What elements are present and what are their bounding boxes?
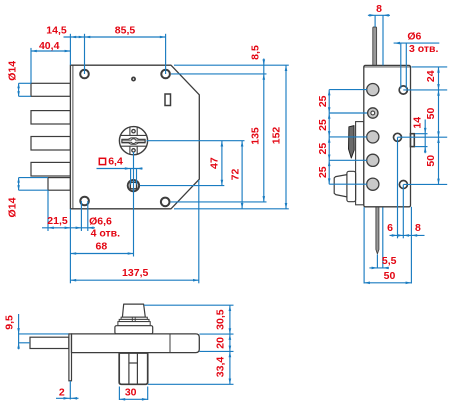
small pin hole top xyxy=(132,77,135,80)
dimension 40,4 line xyxy=(31,50,70,52)
dimension 137,5 line xyxy=(70,279,198,281)
lock body plate outline xyxy=(70,65,199,209)
knob flange 2 xyxy=(119,319,149,321)
wire: extension bolt left end xyxy=(30,48,32,83)
bolt 4 xyxy=(31,162,70,176)
svg-text:8,5: 8,5 xyxy=(250,45,262,60)
dimension diameter 14 bottom bolt xyxy=(18,178,20,191)
dimension chain 30,5-20-33,4 line xyxy=(229,305,231,384)
wire: tab extension left xyxy=(118,387,120,401)
side hole 3 xyxy=(399,181,407,189)
cylinder tab top lines xyxy=(129,127,131,135)
lever nose dark xyxy=(349,126,355,158)
dimension 21,5 and 6,6 line xyxy=(42,227,95,229)
screw hole bottom-left xyxy=(80,197,89,206)
bolt 2 xyxy=(31,111,70,124)
cylinder screw hole top xyxy=(132,130,135,133)
wire: extension hole2 down xyxy=(397,137,399,238)
wire: extension hole 6,6 right xyxy=(87,201,89,231)
svg-text:9,5: 9,5 xyxy=(4,315,16,330)
wire: extension 5,5 right xyxy=(382,207,384,268)
dimension 30 line xyxy=(119,398,147,400)
wire: extension bottom hole center right xyxy=(170,201,266,203)
cylinder ring side xyxy=(347,171,356,201)
slot opening right xyxy=(165,94,171,106)
boss 5 xyxy=(367,178,379,190)
dimension diameter 14 top bolt xyxy=(18,83,20,96)
wire: extension plate top edge right xyxy=(174,64,289,66)
latch tab bottom view outline xyxy=(119,353,148,384)
faceplate bottom view xyxy=(69,334,72,381)
boss 1 xyxy=(367,84,379,96)
svg-text:14,5: 14,5 xyxy=(46,25,67,37)
cylinder outer circle xyxy=(119,127,147,155)
svg-text:Ø6,6: Ø6,6 xyxy=(89,215,112,227)
wire: extension bolt5 left end xyxy=(47,190,49,231)
wire: tab extension right xyxy=(147,387,149,401)
knob flange 3 xyxy=(118,322,150,326)
svg-text:5,5: 5,5 xyxy=(382,255,397,267)
cylinder keyway outer xyxy=(122,138,145,144)
wire: right extension lines xyxy=(412,66,448,68)
svg-text:135: 135 xyxy=(250,127,262,145)
svg-text:85,5: 85,5 xyxy=(115,25,136,37)
side hole 1 xyxy=(399,86,407,94)
faceplate flange side xyxy=(356,122,364,205)
dimension 6 and 8 bottom line xyxy=(390,234,425,236)
svg-text:2: 2 xyxy=(59,387,65,399)
dimension square 6,4 line xyxy=(97,168,143,170)
wire: tab bottom extension right xyxy=(148,383,234,385)
wire: extension top hole center right xyxy=(171,73,267,75)
bolt strip bottom view xyxy=(30,337,69,348)
svg-text:6: 6 xyxy=(387,222,393,234)
cylinder chord bottom xyxy=(120,145,146,147)
svg-text:24: 24 xyxy=(425,70,437,82)
lock body bottom view xyxy=(72,334,200,353)
svg-text:50: 50 xyxy=(425,108,437,120)
wire: extension hole3 down xyxy=(402,185,404,239)
cylinder chord top xyxy=(120,134,146,136)
rod bottom xyxy=(376,207,379,254)
latch tab inner cross line xyxy=(129,362,138,364)
svg-text:8: 8 xyxy=(415,222,421,234)
wire: extension plate right edge bottom xyxy=(198,180,200,283)
wire: extension screw hole col right xyxy=(165,34,167,74)
wire: extension plate bottom edge right xyxy=(174,208,289,210)
dimension 68 line xyxy=(70,253,133,255)
svg-text:68: 68 xyxy=(96,241,108,253)
svg-text:4 отв.: 4 отв. xyxy=(91,228,121,240)
bolt 3 xyxy=(31,137,70,151)
knob flange 1 xyxy=(121,317,147,319)
dimension 5,5 line xyxy=(369,267,389,269)
body top inner line xyxy=(364,66,411,68)
dimension 2 line xyxy=(56,397,79,399)
wire: extension plate left edge top xyxy=(69,34,71,65)
boss 4 xyxy=(367,154,379,166)
boss 2 washer xyxy=(368,108,378,118)
wire: extension hole 6,6 left xyxy=(80,201,82,231)
svg-text:21,5: 21,5 xyxy=(47,215,68,227)
wire: extension screw hole col left xyxy=(84,34,86,74)
body division line xyxy=(169,334,171,353)
svg-text:8: 8 xyxy=(376,3,382,15)
knob cap xyxy=(122,304,145,317)
wire: body bottom extension right bottom view xyxy=(200,350,234,352)
square spindle hub outer xyxy=(128,180,139,191)
cylinder keyway inner slot xyxy=(122,139,145,144)
dimension chain 25x4 line xyxy=(328,90,330,185)
label square 6,4 symbol xyxy=(99,158,105,164)
cylinder tab bottom lines xyxy=(129,146,131,154)
wire: extension cylinder center right xyxy=(147,140,245,142)
svg-text:25: 25 xyxy=(317,119,329,131)
svg-text:Ø14: Ø14 xyxy=(6,197,18,217)
screw hole top-left xyxy=(80,70,89,79)
dimension chain 24-50-50 line xyxy=(438,67,440,184)
dimension diameter 6 line xyxy=(394,42,440,44)
svg-text:6,4: 6,4 xyxy=(108,155,123,167)
svg-text:47: 47 xyxy=(208,157,220,169)
wire: cylinder centerline vertical xyxy=(133,152,135,257)
dimension 72 line xyxy=(241,141,243,209)
svg-text:50: 50 xyxy=(384,270,396,282)
svg-text:152: 152 xyxy=(270,127,282,145)
dimension 47 line xyxy=(221,141,223,186)
screw hole top-right xyxy=(161,70,170,79)
latch tab inner left line xyxy=(128,353,130,384)
wire: extension body left edge down xyxy=(363,207,365,283)
side hole 2 xyxy=(394,133,402,141)
svg-text:50: 50 xyxy=(425,155,437,167)
dimension 8,5 and 135 line xyxy=(263,59,265,202)
svg-text:20: 20 xyxy=(215,337,227,349)
svg-text:33,4: 33,4 xyxy=(215,357,227,378)
wire: boss center extension lines left xyxy=(329,89,367,91)
cylinder screw hole bottom xyxy=(132,149,135,152)
bolt 1 xyxy=(31,83,70,96)
wire: extension rod center down xyxy=(376,254,378,268)
svg-text:137,5: 137,5 xyxy=(122,267,148,279)
square spindle hole 6,4 xyxy=(130,182,136,189)
wire: extension plate left edge bottom xyxy=(69,209,71,283)
wire: body top extension right bottom view xyxy=(200,333,234,335)
svg-text:Ø6: Ø6 xyxy=(407,30,421,42)
lock body side outline xyxy=(364,65,411,206)
svg-text:40,4: 40,4 xyxy=(39,40,60,52)
wire: faceplate extension down xyxy=(69,381,71,400)
knob plinth xyxy=(115,326,153,334)
svg-text:14: 14 xyxy=(411,117,423,129)
dimension 14 tab xyxy=(424,120,426,154)
wire: extension square hub center right xyxy=(140,185,225,187)
svg-text:3 отв.: 3 отв. xyxy=(409,43,439,55)
svg-text:30,5: 30,5 xyxy=(215,309,227,330)
dimension 152 line xyxy=(285,65,287,209)
side tab right xyxy=(411,134,415,147)
knob notch marks xyxy=(131,317,133,321)
wire: knob top extension right xyxy=(144,304,234,306)
svg-text:25: 25 xyxy=(317,95,329,107)
svg-text:30: 30 xyxy=(125,387,137,399)
screw hole bottom-right xyxy=(161,198,170,207)
wire: extension body right edge down xyxy=(410,207,412,284)
faceplate inner edge line xyxy=(72,65,74,209)
boss 3 xyxy=(367,131,379,143)
svg-text:Ø14: Ø14 xyxy=(7,61,19,81)
bolt 5 auxiliary xyxy=(48,178,70,191)
svg-text:25: 25 xyxy=(317,143,329,155)
dimension 50 bottom line xyxy=(364,282,411,284)
dimension 14,5 and 85,5 line xyxy=(64,36,166,38)
svg-text:72: 72 xyxy=(229,169,241,181)
cylinder nose side xyxy=(334,175,347,197)
rod top xyxy=(373,27,377,65)
svg-text:25: 25 xyxy=(317,166,329,178)
dimension 9,5 line xyxy=(18,314,20,349)
dimension 8 top rod xyxy=(368,14,390,16)
latch tab inner right line xyxy=(136,353,138,384)
